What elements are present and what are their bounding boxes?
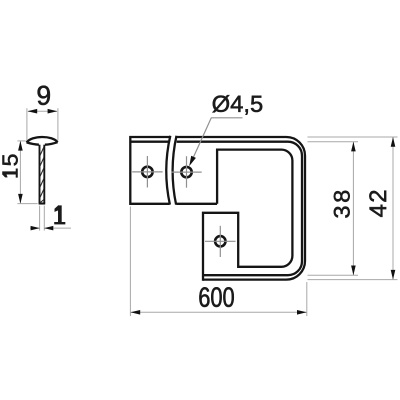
dimension 1: text — [55, 206, 66, 225]
dimension 38: top arrow — [351, 142, 356, 152]
dimension 15: extension lines — [17, 140, 25, 142]
dimension 42: text — [369, 191, 386, 217]
dimension 1: left line + arrow — [30, 227, 40, 229]
dimension 42: bottom arrow — [391, 270, 396, 280]
dimension 600: left arrow — [131, 310, 141, 315]
dimension 15: dim line — [19, 142, 21, 204]
leader underline — [211, 117, 243, 119]
bracket: left strip section outline — [130, 137, 170, 204]
dimension 1: extension lines — [39, 206, 41, 231]
dimension 600: right arrow — [297, 310, 307, 315]
hole 2 — [181, 167, 191, 177]
break line right — [173, 136, 177, 205]
dimension 42: dim line — [392, 137, 394, 279]
hole 1 centerlines — [132, 171, 162, 173]
hole 1 — [142, 167, 152, 177]
leader line — [191, 118, 212, 164]
dimension 600: dim line — [130, 311, 306, 313]
side view: screw head cap — [27, 137, 58, 145]
side view: screw stem — [39, 145, 46, 204]
hole 3 centerlines — [205, 240, 236, 242]
dimension 9: dim line — [28, 110, 57, 112]
dimension 42: extension lines — [308, 136, 398, 138]
hole diameter label: text — [213, 95, 263, 115]
dimension 42: top arrow — [391, 137, 396, 147]
dimension 600: text — [199, 287, 233, 307]
dimension 38: bottom arrow — [351, 266, 356, 276]
bracket: middle strip line — [177, 142, 302, 276]
dimension 9: text — [38, 86, 50, 105]
stem hatching — [40, 147, 44, 203]
hole 3 — [215, 236, 225, 246]
dimension 9: extension lines — [26, 108, 28, 140]
hole 2 centerlines — [171, 171, 201, 173]
dimension 38: extension lines — [308, 141, 359, 143]
dimension 15: bottom arrow — [18, 194, 23, 204]
dimension 9: left arrow — [27, 109, 37, 114]
leader arrow — [189, 156, 196, 166]
dimension 600: extension lines — [129, 207, 131, 317]
bracket: inner cutout boundary with mounting tab — [203, 150, 292, 281]
dimension 38: dim line — [352, 142, 354, 275]
dimension 15: top arrow — [18, 141, 23, 151]
dimension 9: right arrow — [48, 109, 58, 114]
bracket: flat part bottom edge (right of break) — [176, 203, 217, 205]
break line left — [166, 136, 170, 205]
bracket: outer outline (top, rounded right end, bottom) — [177, 137, 305, 280]
dimension 1: right line + arrow — [44, 227, 71, 229]
dimension 15: text — [3, 155, 18, 178]
bracket: left strip inner top line — [130, 141, 169, 143]
dimension 38: text — [334, 191, 350, 218]
